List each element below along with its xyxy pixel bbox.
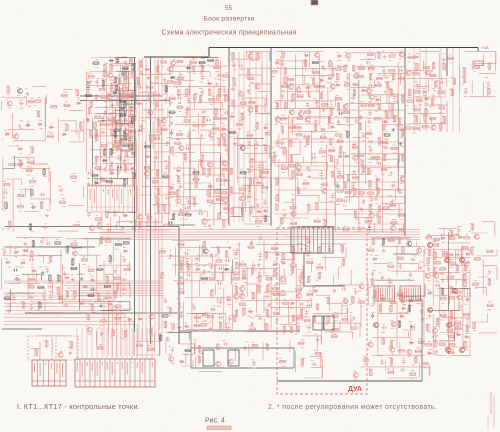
resistor R467	[247, 246, 254, 248]
diode VD48	[361, 89, 366, 92]
transformer box T2	[324, 316, 334, 330]
resistor R251	[290, 222, 297, 224]
resistor R19	[27, 161, 34, 163]
wire dark long y368	[191, 367, 294, 369]
resistor R471	[259, 275, 261, 282]
transistor VT83	[364, 358, 369, 363]
ground	[87, 182, 91, 186]
resistor R490	[292, 315, 294, 322]
resistor R553	[427, 324, 429, 331]
transistor VT57	[149, 314, 154, 319]
capacitor C67	[281, 93, 285, 98]
capacitor C22	[87, 212, 91, 217]
capacitor C128	[90, 287, 95, 291]
capacitor C48	[200, 90, 204, 95]
resistor R130	[169, 192, 176, 194]
capacitor C186	[402, 359, 406, 364]
diode VD43	[330, 126, 335, 129]
resistor R103	[137, 78, 139, 85]
capacitor C77	[322, 107, 326, 112]
resistor R127	[169, 97, 176, 99]
signal table X5	[88, 186, 138, 212]
resistor R180	[225, 94, 227, 101]
resistor R165	[207, 190, 209, 197]
svg-text:-2: -2	[1, 137, 4, 141]
resistor R421	[115, 305, 122, 307]
capacitor C26	[121, 71, 125, 76]
diode VD89	[458, 236, 463, 239]
right edge streak 3	[487, 416, 489, 430]
transistor VT53	[425, 70, 430, 75]
resistor R573	[448, 297, 455, 299]
resistor R424	[87, 313, 89, 320]
right edge streak 1	[490, 392, 492, 414]
resistor R444	[194, 316, 201, 318]
resistor R395	[49, 274, 51, 281]
capacitor C60	[247, 141, 251, 146]
capacitor C141	[192, 305, 196, 310]
resistor R116	[152, 181, 159, 183]
ground	[247, 89, 251, 93]
capacitor C49	[201, 110, 206, 114]
resistor R112	[155, 100, 157, 107]
capacitor C21	[131, 151, 135, 156]
resistor R554	[425, 344, 432, 346]
capacitor C35	[156, 128, 160, 133]
capacitor C142	[210, 264, 214, 269]
value labels	[358, 283, 363, 307]
diode VD66	[127, 318, 132, 321]
ground	[283, 213, 287, 217]
resistor R341	[393, 115, 395, 122]
diode VD25	[186, 67, 191, 70]
ground	[23, 242, 27, 246]
resistor R210	[259, 170, 261, 177]
resistor R227	[304, 60, 306, 67]
resistor R100	[132, 117, 134, 124]
transistor VT37	[291, 211, 296, 216]
resistor R372	[429, 117, 436, 119]
resistor R540	[402, 246, 404, 253]
resistor R552	[427, 258, 429, 265]
resistor R396	[54, 242, 61, 244]
resistor R399	[66, 246, 68, 253]
resistor R569	[446, 253, 453, 255]
capacitor C149	[225, 326, 230, 330]
ground	[166, 336, 170, 340]
resistor R67	[122, 88, 129, 90]
wire left bus row 6	[73, 292, 164, 294]
capacitor C5	[40, 193, 45, 197]
right edge streak 2	[493, 396, 495, 428]
wire vertical bus line 6	[161, 58, 163, 340]
resistor R375	[438, 107, 445, 109]
resistor R89	[114, 140, 121, 142]
wire left bus row 7	[76, 295, 164, 297]
wire connector drop 2	[81, 328, 83, 359]
resistor R371	[431, 99, 433, 106]
resistor R526	[351, 327, 358, 329]
resistor R221	[284, 77, 286, 84]
diode VD50	[375, 178, 380, 181]
value labels	[272, 51, 333, 109]
diode VD2	[38, 123, 43, 126]
ground	[18, 124, 22, 128]
capacitor C157	[300, 270, 304, 275]
resistor R483	[282, 254, 284, 261]
resistor R17	[17, 206, 24, 208]
capacitor C145	[219, 299, 223, 304]
capacitor C182	[432, 335, 437, 339]
resistor R456	[226, 251, 228, 258]
wire	[193, 260, 233, 314]
resistor R179	[222, 75, 229, 77]
resistor R604	[387, 371, 394, 373]
transistor VT65	[216, 361, 221, 366]
ground	[169, 254, 173, 258]
node +12V tick	[477, 48, 479, 52]
wire	[271, 52, 335, 109]
resistor R167	[216, 59, 218, 66]
wire stair corner 8	[4, 321, 133, 356]
resistor R408	[91, 304, 93, 311]
resistor R400	[66, 291, 68, 298]
transistor VT17	[179, 146, 184, 151]
capacitor C40	[177, 96, 182, 100]
value labels	[35, 341, 74, 352]
capacitor C179	[427, 267, 431, 272]
capacitor C32	[138, 129, 143, 133]
resistor R16	[17, 194, 24, 196]
wire tr vertical 2	[419, 48, 421, 132]
resistor R293	[353, 65, 355, 72]
resistor R374	[437, 91, 444, 93]
resistor R579	[448, 351, 455, 353]
resistor R364	[423, 66, 430, 68]
resistor R504	[251, 345, 258, 347]
transistor VT4	[108, 73, 113, 78]
capacitor C143	[218, 267, 223, 271]
wire dark trunk x134	[134, 58, 136, 332]
capacitor C81	[336, 160, 340, 165]
ground	[488, 270, 492, 274]
resistor R203	[246, 135, 253, 137]
transistor VT49	[390, 226, 395, 231]
transistor VT302	[447, 323, 452, 328]
resistor R547	[415, 298, 422, 300]
transistor VT33	[314, 52, 319, 57]
resistor R134	[174, 82, 181, 84]
transistor VT21	[207, 162, 212, 167]
diode VD17	[129, 106, 134, 109]
transistor VT34	[330, 84, 335, 89]
resistor R518	[313, 316, 315, 323]
resistor R377	[440, 123, 442, 130]
diode VD29	[223, 179, 228, 182]
resistor R522	[332, 328, 339, 330]
capacitor C85	[346, 118, 350, 123]
resistor R43	[104, 64, 106, 71]
resistor R72	[125, 150, 127, 157]
resistor R233	[320, 92, 322, 99]
diode VD28	[221, 127, 226, 130]
resistor R239	[276, 204, 278, 211]
resistor R457	[236, 262, 238, 269]
ground	[316, 338, 320, 342]
resistor R459	[233, 278, 240, 280]
transistor VT35	[275, 117, 280, 122]
wire horizontal bus row 2	[100, 231, 420, 233]
svg-text:I. КТ1...КТ17 - контрольные то: I. КТ1...КТ17 - контрольные точки.	[17, 402, 140, 411]
resistor R25	[41, 202, 43, 209]
resistor R548	[418, 341, 425, 343]
capacitor C42	[185, 111, 189, 116]
capacitor C69	[306, 102, 310, 107]
transistor VT72	[407, 241, 412, 246]
transistor VT42	[346, 53, 351, 58]
resistor R82	[95, 218, 102, 220]
resistor R382	[463, 76, 465, 83]
capacitor C176	[399, 264, 403, 269]
svg-text:и/у: и/у	[1, 227, 6, 231]
ground	[120, 148, 124, 152]
ground	[7, 309, 11, 313]
resistor R309	[368, 68, 375, 70]
resistor R49	[101, 145, 108, 147]
capacitor C183	[457, 228, 461, 233]
capacitor C31	[137, 85, 142, 89]
resistor R545	[398, 350, 405, 352]
wire	[359, 361, 430, 379]
diode VD13	[130, 167, 135, 170]
capacitor C46	[184, 206, 189, 210]
resistor R539	[398, 237, 400, 244]
resistor R384	[488, 63, 490, 70]
resistor R174	[218, 138, 220, 145]
wire horizontal bus row 4	[100, 236, 420, 238]
resistor R466	[243, 308, 245, 315]
wire	[114, 58, 136, 125]
wire horizontal bus row 5	[100, 239, 420, 241]
ground	[372, 301, 376, 305]
capacitor C178	[409, 272, 413, 277]
capacitor C98	[369, 197, 373, 202]
ground	[116, 119, 120, 123]
resistor R141	[178, 213, 185, 215]
resistor R383	[473, 66, 480, 68]
diode VD63	[90, 279, 95, 282]
capacitor C135	[178, 315, 183, 319]
resistor R428	[112, 329, 114, 336]
resistor R583	[455, 327, 462, 329]
wire EF row 5	[274, 213, 404, 215]
wire bottom dark bus rise	[421, 356, 423, 381]
wire connector drop 10	[121, 328, 123, 359]
diode VD24	[176, 169, 181, 172]
resistor R596	[474, 258, 481, 260]
transistor VT11	[148, 110, 153, 115]
ground	[243, 346, 247, 350]
resistor R496	[297, 325, 299, 332]
resistor R574	[450, 311, 452, 318]
resistor R206	[250, 207, 252, 214]
ground	[250, 322, 254, 326]
svg-text:55: 55	[225, 5, 233, 12]
wire bottom dark bus	[277, 380, 422, 382]
transistor VT47	[369, 95, 374, 100]
resistor R80	[133, 172, 135, 179]
value labels	[405, 54, 445, 133]
capacitor C154	[258, 271, 262, 276]
transistor VT46	[366, 88, 371, 93]
capacitor C44	[185, 147, 190, 151]
resistor R96	[120, 139, 127, 141]
capacitor C99	[368, 226, 372, 231]
resistor R252	[296, 117, 303, 119]
ground	[359, 207, 363, 211]
ground	[228, 246, 232, 250]
ground	[202, 269, 206, 273]
resistor R566	[439, 343, 446, 345]
resistor R99	[128, 94, 135, 96]
resistor R315	[367, 192, 374, 194]
resistor R11	[80, 122, 82, 129]
wire	[47, 90, 84, 142]
resistor R603	[390, 358, 392, 365]
resistor R143	[183, 120, 190, 122]
resistor R12	[3, 184, 10, 186]
resistor R214	[262, 171, 269, 173]
resistor R106	[148, 94, 150, 101]
ground	[256, 203, 260, 207]
resistor R23	[29, 223, 31, 230]
resistor R40	[96, 156, 98, 163]
wire	[92, 58, 136, 186]
resistor R305	[361, 160, 363, 167]
resistor R287	[343, 111, 350, 113]
IC D2 package	[400, 286, 421, 301]
transistor VT15	[171, 61, 176, 66]
resistor R201	[247, 77, 254, 79]
resistor R268	[324, 219, 326, 226]
capacitor C137	[184, 252, 189, 256]
resistor R489	[291, 267, 293, 274]
transistor VT54	[431, 125, 436, 130]
value labels	[197, 341, 286, 368]
wire	[51, 171, 84, 231]
resistor R166	[206, 200, 213, 202]
resistor R107	[150, 135, 152, 142]
resistor R258	[303, 135, 310, 137]
resistor R463	[239, 264, 246, 266]
resistor R123	[162, 175, 169, 177]
wire	[2, 237, 63, 312]
resistor R314	[369, 180, 371, 187]
wire connector drop 1	[76, 328, 78, 359]
wire tr vertical 1	[413, 48, 415, 132]
resistor R594	[471, 223, 473, 230]
resistor R205	[248, 185, 250, 192]
capacitor C125	[49, 294, 53, 299]
capacitor C153	[258, 253, 262, 258]
wire connector drop 13	[136, 328, 138, 359]
capacitor C105	[384, 90, 388, 95]
resistor R317	[365, 221, 372, 223]
relay box K2	[228, 350, 239, 366]
resistor R354	[409, 89, 411, 96]
resistor R474	[266, 278, 273, 280]
wire vertical bus line 5	[158, 58, 160, 340]
diode VD56	[14, 251, 19, 254]
diode VD23	[169, 186, 174, 189]
resistor R482	[273, 312, 280, 314]
resistor R46	[99, 89, 106, 91]
capacitor C89	[351, 184, 355, 189]
resistor R593	[358, 301, 365, 303]
capacitor C80	[338, 111, 343, 115]
resistor R422	[123, 242, 130, 244]
diode VD76	[273, 263, 278, 266]
transistor VT36	[289, 110, 294, 115]
resistor R262	[314, 124, 316, 131]
capacitor C113	[439, 81, 444, 85]
resistor R508	[301, 358, 303, 365]
resistor R511	[184, 349, 191, 351]
resistor R484	[279, 293, 286, 295]
resistor R541	[397, 257, 404, 259]
resistor R88	[114, 131, 116, 138]
ground	[352, 143, 356, 147]
ground	[421, 317, 425, 321]
diode VD12	[123, 67, 128, 70]
resistor R452	[207, 316, 214, 318]
resistor R298	[354, 188, 356, 195]
diode VD80	[313, 290, 318, 293]
transistor VT3	[14, 134, 19, 139]
resistor R369	[429, 74, 436, 76]
ground	[179, 185, 183, 189]
wire dark row y100	[80, 100, 150, 102]
capacitor C1	[19, 102, 24, 106]
resistor R104	[139, 221, 141, 228]
resistor R494	[300, 309, 302, 316]
resistor R192	[230, 186, 232, 193]
value labels	[335, 51, 406, 234]
diode VD42	[320, 128, 325, 131]
resistor R600	[488, 279, 490, 286]
resistor R284	[336, 199, 343, 201]
resistor R50	[104, 149, 106, 156]
wire	[231, 236, 313, 332]
resistor R562	[439, 268, 446, 270]
capacitor C117	[12, 296, 16, 301]
resistor R334	[382, 207, 389, 209]
transistor VT32	[296, 87, 301, 92]
resistor R398	[57, 287, 59, 294]
resistor R135	[178, 89, 180, 96]
resistor R535	[387, 265, 394, 267]
resistor R249	[292, 171, 294, 178]
resistor R226	[297, 95, 304, 97]
capacitor C107	[383, 146, 388, 150]
resistor R390	[28, 278, 35, 280]
wire	[295, 336, 322, 378]
wire connector drop 12	[131, 328, 133, 359]
transistor VT66	[228, 359, 233, 364]
diode VD79	[179, 360, 184, 363]
resistor R60	[116, 57, 118, 64]
resistor R207	[256, 53, 258, 60]
